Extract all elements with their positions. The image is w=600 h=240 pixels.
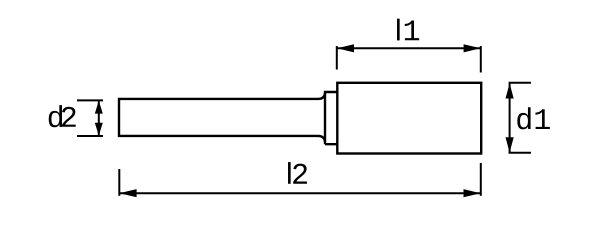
label d1: letter d <box>517 107 530 129</box>
head rectangle (cutter body) <box>337 83 481 154</box>
dimension d2: line <box>98 101 100 135</box>
dimension l2: extension line left <box>118 169 120 196</box>
dimension d1: top arrowhead <box>506 83 514 98</box>
dimension l1: extension line left <box>336 46 338 70</box>
dimension l2: line <box>120 192 480 194</box>
label l2: letter l <box>288 162 291 184</box>
label l1: letter l <box>397 19 400 41</box>
dimension d2: bottom tick <box>77 135 103 137</box>
neck fillet bottom <box>319 136 326 142</box>
dimension d1: top tick <box>509 82 531 84</box>
dimension l1: left arrowhead <box>337 44 354 52</box>
collar between shank and head <box>325 92 337 144</box>
label l1: digit 1 <box>405 21 419 41</box>
label d1: digit 1 <box>535 109 549 129</box>
label d2: letter d <box>49 105 62 127</box>
dimension l2: right arrowhead <box>464 189 481 197</box>
label l2: digit 2 <box>293 164 307 184</box>
neck fillet top <box>319 93 326 99</box>
dimension d1: line <box>509 84 511 153</box>
dimension l2: extension line right <box>480 163 482 196</box>
dimension d2: top tick <box>77 99 103 101</box>
dimension l2: left arrowhead <box>120 189 137 197</box>
dimension l1: line <box>338 47 481 49</box>
dimension d2: bottom arrowhead <box>95 123 103 136</box>
dimension l1: right arrowhead <box>464 44 481 52</box>
dimension l1: extension line right <box>480 46 482 73</box>
label d2: digit 2 <box>62 107 76 127</box>
dimension d1: bottom arrowhead <box>506 137 514 152</box>
shank (cylindrical shaft) outline <box>119 99 319 136</box>
dimension d1: bottom tick <box>509 152 531 154</box>
dimension d2: top arrowhead <box>95 101 103 114</box>
